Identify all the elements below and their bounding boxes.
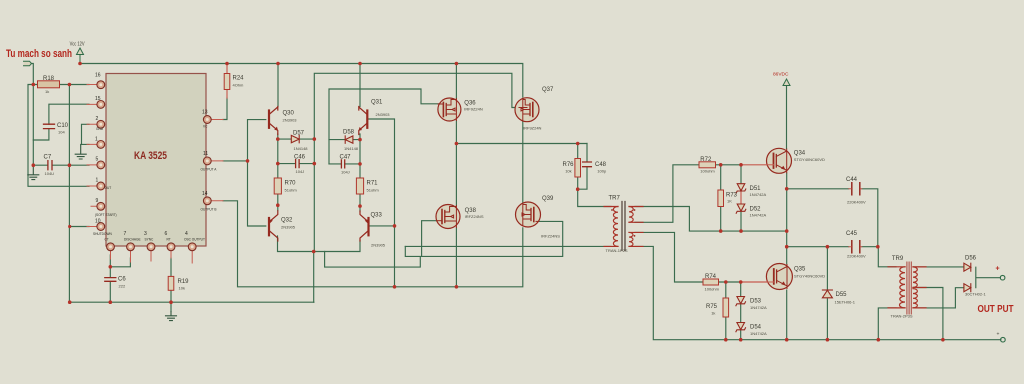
resistor R24 bbox=[224, 74, 230, 90]
MOSFET Q36 bbox=[438, 98, 461, 121]
resistor R75 bbox=[723, 298, 729, 317]
svg-text:+: + bbox=[997, 332, 1000, 338]
wire Q36 drain bbox=[455, 64, 457, 100]
wire D55 column bbox=[826, 247, 828, 340]
svg-text:220K400V: 220K400V bbox=[847, 200, 866, 205]
power arrow Vcc 12V bbox=[77, 48, 84, 64]
svg-text:10k: 10k bbox=[179, 286, 185, 291]
svg-text:IRF9Z24N: IRF9Z24N bbox=[464, 107, 483, 112]
svg-text:10: 10 bbox=[95, 219, 101, 225]
svg-text:OSC OUTPUT: OSC OUTPUT bbox=[184, 238, 205, 242]
wire C7 leads bbox=[33, 164, 89, 166]
svg-text:(SOFT START): (SOFT START) bbox=[95, 213, 117, 217]
wire Q36 source to Q38 drain bbox=[455, 121, 457, 207]
svg-text:C48: C48 bbox=[595, 162, 607, 168]
svg-text:IRF9Z24N: IRF9Z24N bbox=[523, 126, 542, 131]
power arrow 86VDC bbox=[783, 79, 790, 86]
MOSFET Q37 mirrored bbox=[515, 98, 539, 122]
wire output B down to mid rail bbox=[223, 201, 523, 287]
svg-text:D55: D55 bbox=[836, 292, 848, 298]
IC pin labels left inside bbox=[93, 127, 117, 236]
wire Q31 Q33 base column bbox=[367, 119, 394, 287]
svg-text:1k: 1k bbox=[711, 311, 715, 316]
capacitor C46 bbox=[296, 160, 300, 168]
wire pin2 down to gnd pin bbox=[82, 124, 90, 144]
svg-text:15ETH06-1: 15ETH06-1 bbox=[835, 300, 856, 305]
svg-text:C7: C7 bbox=[44, 155, 52, 161]
svg-text:R72: R72 bbox=[700, 157, 712, 163]
wire top 12V rail bbox=[80, 64, 523, 98]
wire C6 net bbox=[110, 255, 130, 302]
svg-text:R19: R19 bbox=[178, 279, 190, 285]
svg-text:R71: R71 bbox=[367, 181, 379, 187]
wire Q34 emitter column bbox=[786, 173, 788, 264]
svg-text:11: 11 bbox=[203, 151, 208, 157]
svg-text:16: 16 bbox=[95, 73, 101, 79]
capacitor C6 bbox=[105, 278, 116, 282]
wire node A branch to 256 net bbox=[325, 221, 563, 267]
capacitor C44 bbox=[852, 183, 860, 195]
wire D58 column to Q36 gate bbox=[329, 89, 443, 164]
transistor Q31 NPN mirrored bbox=[359, 107, 368, 135]
svg-text:D53: D53 bbox=[750, 299, 762, 305]
svg-text:3: 3 bbox=[144, 231, 147, 237]
svg-text:Q35: Q35 bbox=[794, 267, 806, 273]
svg-text:104U: 104U bbox=[45, 171, 55, 176]
svg-text:51ohm: 51ohm bbox=[285, 188, 298, 193]
MOSFET Q38 bbox=[436, 205, 460, 229]
ground under C7 bbox=[28, 165, 39, 179]
capacitor C10 bbox=[44, 124, 55, 128]
wire C48 leads bbox=[578, 144, 587, 190]
wire 86VDC to Q34 collector bbox=[786, 84, 788, 148]
svg-text:15: 15 bbox=[95, 96, 101, 102]
input terminal arrow bbox=[24, 61, 32, 66]
svg-text:13: 13 bbox=[202, 110, 208, 116]
wire C10 top to pin15 bbox=[49, 104, 89, 124]
svg-text:C46: C46 bbox=[294, 155, 306, 161]
wire TR7 sec2 bottom to bottom rail bbox=[635, 246, 1001, 339]
svg-text:4Ohm: 4Ohm bbox=[233, 83, 245, 88]
wire R24 to pin13 bbox=[223, 98, 227, 120]
svg-text:220K400V: 220K400V bbox=[847, 254, 866, 259]
IC bottom pin numbers bbox=[124, 231, 189, 237]
resistor R18 bbox=[38, 81, 60, 88]
dual diode D56 bbox=[964, 263, 971, 292]
wire vertical 69 column bbox=[68, 85, 70, 303]
wire TR7 sec1 bottom to R72 bbox=[635, 165, 699, 223]
resistor R72 bbox=[699, 162, 716, 168]
svg-text:R76: R76 bbox=[563, 162, 575, 168]
svg-text:D54: D54 bbox=[750, 325, 762, 331]
svg-text:DISCHAGE: DISCHAGE bbox=[124, 238, 141, 242]
wire R18 left lead / pin9 branch bbox=[28, 85, 89, 187]
svg-text:86VDC: 86VDC bbox=[773, 72, 789, 78]
IC pin numbers left bbox=[95, 73, 101, 225]
svg-text:9: 9 bbox=[96, 198, 99, 204]
IC pads bottom row bbox=[107, 243, 115, 251]
wire node B column x314 bbox=[314, 73, 519, 251]
wire shutdown pin bbox=[70, 226, 89, 228]
output terminal plus bbox=[1000, 275, 1005, 280]
svg-text:VC: VC bbox=[203, 125, 208, 129]
svg-text:C10: C10 bbox=[57, 123, 69, 129]
capacitor C45 bbox=[852, 241, 860, 253]
svg-text:C44: C44 bbox=[846, 177, 858, 183]
svg-text:1: 1 bbox=[96, 178, 99, 184]
transformer TR9 bbox=[888, 262, 926, 314]
svg-text:C47: C47 bbox=[340, 155, 352, 161]
svg-text:SHUTDOWN: SHUTDOWN bbox=[93, 232, 112, 236]
svg-text:IRFZ24NS: IRFZ24NS bbox=[541, 234, 560, 239]
diode D58 mirrored bbox=[345, 136, 353, 143]
svg-text:2: 2 bbox=[96, 116, 99, 122]
capacitor C48 bbox=[583, 162, 592, 167]
ground at IC GND pin bbox=[75, 144, 86, 159]
svg-text:TR9: TR9 bbox=[892, 256, 904, 262]
output terminal minus bbox=[1001, 337, 1006, 342]
transformer TR7 bbox=[604, 202, 643, 251]
diode D57 bbox=[291, 135, 299, 142]
wire D56 output to plus terminal bbox=[976, 267, 1001, 288]
svg-text:Q33: Q33 bbox=[371, 213, 383, 219]
svg-text:CT: CT bbox=[105, 238, 109, 242]
svg-text:104J: 104J bbox=[341, 170, 350, 175]
wire ground rail y302 bbox=[70, 301, 314, 303]
wire TR7 primary bottom net bbox=[405, 245, 611, 247]
svg-text:R70: R70 bbox=[285, 181, 297, 187]
svg-text:Q39: Q39 bbox=[542, 196, 554, 202]
wire TR9 sec top to D56 bbox=[914, 266, 964, 268]
svg-text:1N4148: 1N4148 bbox=[294, 146, 309, 151]
IGBT Q35 bbox=[766, 264, 792, 290]
resistor R70 bbox=[274, 178, 281, 194]
svg-text:1N4742A: 1N4742A bbox=[750, 305, 767, 310]
svg-text:4: 4 bbox=[185, 231, 188, 237]
svg-text:Tu mach so sanh: Tu mach so sanh bbox=[6, 48, 72, 60]
resistor R71 bbox=[356, 178, 363, 194]
svg-text:STGY40NC60VD: STGY40NC60VD bbox=[794, 274, 825, 279]
wire Q31 emitter column bbox=[359, 134, 361, 212]
wire R74 R75 D53 D54 bbox=[719, 282, 741, 340]
wire D51 D52 column bbox=[740, 165, 742, 231]
svg-text:D58: D58 bbox=[343, 130, 355, 136]
svg-text:TR7: TR7 bbox=[609, 196, 621, 202]
capacitor C47 bbox=[341, 160, 344, 168]
wire TR9 sec bottom to D56 bbox=[914, 288, 964, 308]
wire TR9 primary bottom bbox=[878, 308, 896, 340]
svg-text:TRAN-1P2S: TRAN-1P2S bbox=[606, 248, 628, 253]
svg-text:104J: 104J bbox=[296, 169, 305, 174]
svg-text:1N4742A: 1N4742A bbox=[750, 213, 767, 218]
svg-text:Q34: Q34 bbox=[794, 151, 806, 157]
wire Q38 source to mid rail bbox=[455, 228, 457, 287]
svg-text:104: 104 bbox=[58, 130, 65, 135]
wire R72 to Q34 gate bbox=[716, 164, 742, 166]
transistor Q32 PNP bbox=[269, 211, 278, 241]
svg-text:OUTPUT B: OUTPUT B bbox=[201, 208, 217, 212]
wire R19 net bbox=[170, 258, 172, 312]
svg-text:Q31: Q31 bbox=[371, 100, 383, 106]
svg-text:222: 222 bbox=[119, 284, 126, 289]
svg-text:R74: R74 bbox=[705, 274, 717, 280]
svg-text:Q32: Q32 bbox=[281, 218, 293, 224]
transistor Q30 NPN bbox=[269, 107, 278, 135]
svg-text:1N4742A: 1N4742A bbox=[750, 331, 767, 336]
zener D52 bbox=[736, 204, 746, 213]
wire TR9 primary top bbox=[878, 247, 896, 267]
svg-text:10k: 10k bbox=[565, 169, 571, 174]
svg-text:2N3903: 2N3903 bbox=[376, 112, 391, 117]
wire Q30 collector bbox=[277, 64, 279, 107]
wire C44 row bbox=[787, 189, 878, 247]
svg-text:51ohm: 51ohm bbox=[367, 188, 380, 193]
wire D58 C47 row bbox=[329, 140, 360, 164]
svg-text:TRAN-2P3S: TRAN-2P3S bbox=[891, 314, 913, 319]
svg-text:C45: C45 bbox=[846, 231, 858, 237]
wire Q31 collector bbox=[359, 64, 361, 107]
svg-text:OUT: OUT bbox=[105, 186, 112, 190]
zener D51 bbox=[736, 184, 746, 193]
svg-text:OUTPUT A: OUTPUT A bbox=[201, 168, 218, 172]
ground under R19 bbox=[166, 312, 177, 321]
wire C10 bottom jog bbox=[33, 129, 49, 140]
svg-text:30CTH02-1: 30CTH02-1 bbox=[965, 292, 986, 297]
svg-text:1N4742A: 1N4742A bbox=[750, 192, 767, 197]
svg-text:RT: RT bbox=[167, 238, 171, 242]
svg-text:+: + bbox=[996, 266, 1000, 273]
wire TR9 center tap bbox=[914, 288, 943, 340]
wire R73 leads bbox=[720, 165, 722, 231]
IC bottom pin labels bbox=[105, 238, 205, 242]
wire bridge left mid to R76 bbox=[456, 143, 587, 145]
svg-text:14: 14 bbox=[202, 191, 208, 197]
wire Q32 emitter to node A bbox=[278, 236, 361, 252]
wire input terminal to R18 column bbox=[32, 64, 34, 166]
wire node A down to ground rail bbox=[313, 252, 315, 303]
svg-text:OUT PUT: OUT PUT bbox=[978, 304, 1014, 315]
svg-text:7: 7 bbox=[124, 231, 127, 237]
wire R18 right to pin16 bbox=[60, 84, 90, 86]
svg-text:R75: R75 bbox=[706, 304, 718, 310]
svg-text:STGY40NC60VD: STGY40NC60VD bbox=[794, 157, 825, 162]
wire TR7 sec1 top to R73 rail bbox=[635, 207, 787, 232]
resistor R74 bbox=[703, 279, 719, 285]
red pin stubs left bbox=[87, 85, 223, 264]
svg-text:6: 6 bbox=[165, 231, 168, 237]
svg-text:100p: 100p bbox=[597, 169, 607, 174]
svg-text:C6: C6 bbox=[118, 277, 126, 283]
svg-text:KA 3525: KA 3525 bbox=[134, 150, 167, 162]
resistor R76 bbox=[575, 159, 581, 178]
IC right pin numbers and labels bbox=[202, 110, 208, 198]
wire TR7 primary top net bbox=[578, 144, 611, 207]
transistor Q33 PNP mirrored bbox=[360, 211, 369, 241]
svg-text:2N3905: 2N3905 bbox=[371, 243, 386, 248]
svg-text:100ohm: 100ohm bbox=[705, 287, 720, 292]
svg-text:5: 5 bbox=[96, 157, 99, 163]
svg-text:1N4148: 1N4148 bbox=[344, 146, 359, 151]
svg-text:Q37: Q37 bbox=[542, 87, 554, 93]
svg-text:100ohm: 100ohm bbox=[700, 169, 715, 174]
resistor R73 bbox=[718, 190, 724, 207]
svg-text:2N3903: 2N3903 bbox=[283, 118, 298, 123]
svg-text:SYNC: SYNC bbox=[145, 238, 155, 242]
IC pads right column bbox=[203, 116, 211, 124]
svg-text:R24: R24 bbox=[233, 76, 245, 82]
wire C45 row bbox=[787, 246, 878, 248]
svg-text:D57: D57 bbox=[293, 131, 305, 137]
svg-text:D56: D56 bbox=[965, 256, 977, 262]
MOSFET Q39 mirrored bbox=[516, 202, 541, 227]
svg-text:Q30: Q30 bbox=[283, 111, 295, 117]
svg-text:1K: 1K bbox=[727, 199, 732, 204]
wire D57 C46 row bbox=[278, 139, 315, 164]
zener D54 bbox=[736, 323, 746, 332]
svg-text:2N3905: 2N3905 bbox=[281, 225, 296, 230]
wire Q35 emitter bbox=[786, 290, 788, 340]
svg-text:IRFZ24NS: IRFZ24NS bbox=[465, 214, 484, 219]
diode D55 bbox=[822, 290, 832, 298]
svg-text:1k: 1k bbox=[45, 89, 49, 94]
svg-text:R18: R18 bbox=[43, 76, 55, 82]
wire TR7 sec2 top to R74 bbox=[635, 232, 703, 282]
wire Q38 gate bbox=[422, 221, 437, 257]
capacitor C7 bbox=[48, 161, 52, 170]
svg-text:1: 1 bbox=[95, 137, 98, 143]
IGBT Q34 bbox=[767, 148, 792, 173]
wire Q37 column bbox=[522, 121, 524, 204]
zener D53 bbox=[736, 297, 746, 306]
wire output A to Q30 Q32 bases bbox=[223, 120, 266, 226]
resistor R19 bbox=[168, 276, 174, 290]
svg-text:GND: GND bbox=[96, 127, 104, 131]
IC U1 KA3525 body bbox=[106, 74, 206, 247]
wire Q30 emitter node column bbox=[277, 134, 279, 211]
TEXT LAYER bbox=[6, 41, 1014, 337]
svg-text:Vcc 12V: Vcc 12V bbox=[70, 41, 86, 47]
IC pads left column bbox=[97, 81, 211, 251]
